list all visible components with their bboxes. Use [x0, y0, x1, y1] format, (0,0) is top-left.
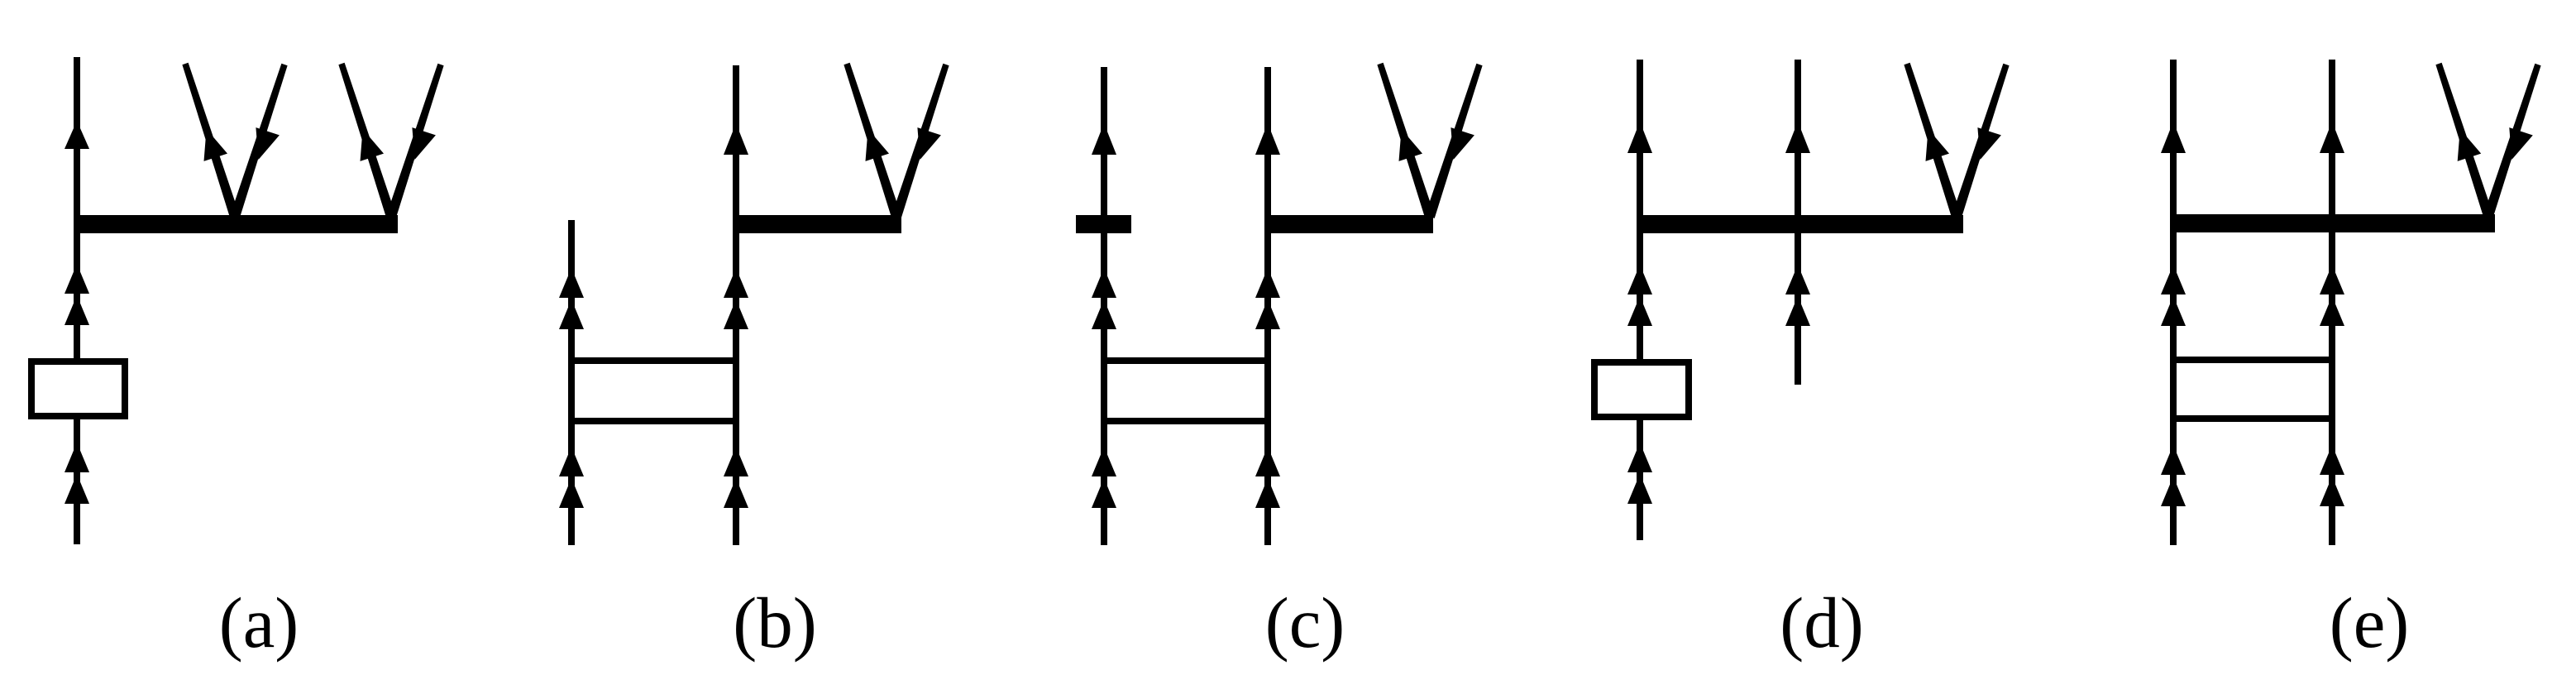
diagram c: thick interaction bar — [1264, 215, 1433, 233]
diagram a: outgoing particle line, left arm of vertex a1 — [182, 63, 239, 218]
diagram d: outgoing particle line, left arm of vertex d1 — [1904, 63, 1961, 218]
diagram b: double up arrows on left line below bar — [559, 268, 584, 329]
diagram e: middle ladder line — [2329, 60, 2335, 545]
diagram d: double up arrows below box — [1627, 443, 1652, 504]
diagram e: double up arrows on middle line below bar — [2320, 265, 2344, 326]
svg-text:(c): (c) — [1265, 582, 1345, 663]
diagram b: up arrow on right line above bar — [724, 123, 748, 155]
svg-text:(d): (d) — [1780, 582, 1863, 663]
diagram b: up arrow on left arm of vertex b1 — [866, 129, 890, 161]
diagram c: down arrow on right arm of vertex c1 — [1450, 127, 1474, 160]
diagram b: outgoing particle line, left arm of vertex b1 — [844, 63, 901, 218]
diagram c: up arrow on left line above blob — [1092, 123, 1116, 155]
diagram b: double up arrows on right line below bar — [724, 268, 748, 329]
diagram e: double up arrows on left line below rungs — [2161, 445, 2186, 506]
diagram e: double up arrows on left line below bar — [2161, 265, 2186, 326]
diagram b: incoming particle line, right arm of vertex b1 — [891, 64, 949, 218]
diagram c: up arrow on left arm of vertex c1 — [1399, 129, 1423, 161]
diagram e: outgoing particle line, left arm of vertex e1 — [2435, 63, 2492, 218]
diagram a: up arrow on hole line above interaction bar — [65, 121, 89, 149]
diagram e: incoming particle line, right arm of vertex e1 — [2483, 64, 2540, 218]
diagram c: double up arrows on right line below rungs — [1255, 447, 1280, 508]
diagram d: thick interaction bar — [1637, 215, 1963, 233]
diagram d: up arrow on middle line above bar — [1785, 122, 1810, 153]
diagram a: correlation box — [31, 361, 125, 416]
diagram c: short interaction blob on left line — [1076, 215, 1131, 233]
diagram d: incoming particle line, right arm of vertex d1 — [1952, 64, 2009, 218]
svg-text:(a): (a) — [219, 582, 299, 663]
diagram b: left ladder line — [568, 220, 575, 545]
diagram a: outgoing particle line, left arm of vertex a2 — [338, 63, 395, 218]
diagram e: upper ladder rung — [2170, 357, 2335, 363]
diagram c: double up arrows on left line below blob — [1092, 268, 1116, 329]
diagram c: upper ladder rung — [1101, 357, 1271, 364]
diagram d: middle hole line — [1795, 60, 1801, 385]
diagram e: up arrow on left line above bar — [2161, 122, 2186, 153]
diagram c: up arrow on right line above bar — [1255, 123, 1280, 155]
diagram a: double up arrows below box — [65, 443, 89, 504]
diagram a: double up arrows below bar — [65, 264, 89, 325]
diagram e: up arrow on middle line above bar — [2320, 122, 2344, 153]
diagram c: double up arrows on right line below bar — [1255, 268, 1280, 329]
diagram d: double up arrows on left line below bar — [1627, 265, 1652, 326]
diagram d: left hole line — [1637, 60, 1643, 540]
diagram a: down arrow on right arm of vertex a1 — [256, 127, 280, 160]
diagram c: lower ladder rung — [1101, 418, 1271, 424]
svg-text:(b): (b) — [733, 582, 816, 663]
diagram e: lower ladder rung — [2170, 415, 2335, 422]
diagram e: left ladder line — [2170, 60, 2177, 545]
diagram d: double up arrows on middle line below bar — [1785, 265, 1810, 326]
diagram b: lower ladder rung — [568, 418, 739, 424]
diagram d: correlation box — [1594, 362, 1689, 417]
diagram b: double up arrows on left line below rungs — [559, 447, 584, 508]
diagram c: left ladder line — [1101, 67, 1107, 545]
diagram d: up arrow on left arm of vertex d1 — [1926, 129, 1950, 161]
diagram a: incoming particle line, right arm of vertex a1 — [230, 64, 287, 218]
diagram a: hole line — [74, 57, 80, 544]
diagram e: down arrow on right arm of vertex e1 — [2509, 127, 2533, 160]
diagram c: right ladder line — [1264, 67, 1271, 545]
diagram a: thick interaction bar — [74, 215, 398, 233]
diagram b: double up arrows on right line below rungs — [724, 447, 748, 508]
diagram e: thick interaction bar — [2170, 214, 2495, 232]
svg-text:(e): (e) — [2330, 582, 2410, 663]
diagram a: incoming particle line, right arm of vertex a2 — [386, 64, 443, 218]
diagram a: up arrow on left arm of vertex a1 — [204, 129, 228, 161]
diagram a: down arrow on right arm of vertex a2 — [412, 127, 436, 160]
diagram c: outgoing particle line, left arm of vertex c1 — [1377, 63, 1434, 218]
diagram b: upper ladder rung — [568, 357, 739, 364]
diagram b: down arrow on right arm of vertex b1 — [917, 127, 941, 160]
diagram c: incoming particle line, right arm of vertex c1 — [1425, 64, 1482, 218]
diagram d: up arrow on left line above bar — [1627, 122, 1652, 153]
diagram c: double up arrows on left line below rungs — [1092, 447, 1116, 508]
diagram a: up arrow on left arm of vertex a2 — [361, 129, 385, 161]
diagram d: down arrow on right arm of vertex d1 — [1977, 127, 2001, 160]
diagram b: thick interaction bar — [733, 215, 901, 233]
diagram b: right ladder line — [733, 65, 739, 545]
diagram e: double up arrows on middle line below rungs — [2320, 445, 2344, 506]
diagram e: up arrow on left arm of vertex e1 — [2458, 129, 2482, 161]
